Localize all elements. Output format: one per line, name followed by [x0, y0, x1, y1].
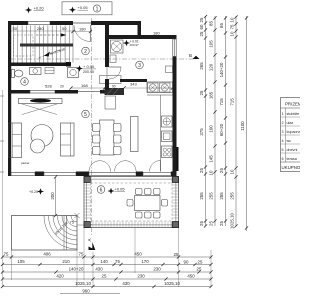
room tag 4: [21, 78, 29, 86]
svg-text:25: 25: [199, 17, 204, 22]
dim row 5: [1, 285, 213, 288]
svg-text:105: 105: [209, 40, 214, 48]
entry door swing: [74, 25, 91, 42]
step arcs: [44, 216, 77, 249]
svg-text:25: 25: [199, 90, 204, 95]
svg-text:wc: wc: [287, 139, 292, 143]
svg-text:85: 85: [219, 23, 224, 28]
burners: [148, 83, 171, 92]
svg-text:75: 75: [79, 252, 84, 257]
terrace chairs top: [136, 189, 161, 195]
stair interior dim line: [11, 26, 75, 31]
shaft stub below pier: [105, 96, 116, 109]
corridor level marker 0.00: [76, 64, 96, 74]
section line A-A vertical dashed: [91, 18, 93, 236]
dim 343: [106, 82, 175, 90]
svg-text:60: 60: [199, 24, 204, 29]
tv sideboard: [19, 99, 63, 104]
svg-text:1: 1: [282, 112, 284, 116]
sofa left: [9, 123, 22, 158]
svg-text:230: 230: [137, 274, 145, 279]
svg-text:960: 960: [82, 289, 90, 294]
dim 528: [45, 84, 64, 89]
svg-text:168: 168: [81, 83, 88, 88]
svg-text:200: 200: [50, 192, 55, 200]
svg-text:140+20: 140+20: [219, 62, 224, 77]
bathroom wc: [110, 55, 116, 63]
shower tray: [111, 40, 124, 53]
terrace table: [135, 196, 161, 211]
section marker B right: [189, 53, 200, 59]
svg-text:25: 25: [219, 221, 224, 226]
toilet: [12, 70, 23, 78]
svg-text:25: 25: [174, 252, 179, 257]
svg-text:25: 25: [197, 267, 202, 272]
chairs left: [93, 124, 101, 155]
south wall: [8, 172, 177, 177]
east wall: [173, 35, 179, 176]
terrace chair right: [162, 200, 168, 207]
dining table: [100, 120, 115, 155]
svg-text:25: 25: [198, 260, 203, 265]
canopy outline above entry: [62, 2, 112, 15]
svg-text:105: 105: [17, 259, 25, 264]
svg-text:200.95: 200.95: [83, 70, 94, 74]
svg-text:dnevni: dnevni: [287, 148, 298, 152]
svg-text:10: 10: [230, 169, 235, 174]
svg-text:140+20: 140+20: [69, 267, 84, 272]
niche above pier: [100, 76, 122, 84]
north wall: [8, 21, 141, 25]
pergola roof dashed: [91, 183, 173, 221]
svg-text:406: 406: [43, 252, 51, 257]
svg-text:10: 10: [230, 31, 235, 36]
cooktop counter: [147, 82, 173, 95]
pergola frame: [84, 177, 179, 228]
svg-text:A: A: [87, 238, 92, 241]
svg-text:528: 528: [45, 84, 52, 89]
kitchen island: [131, 117, 139, 152]
svg-text:430: 430: [95, 267, 103, 272]
stair treads: [14, 26, 74, 63]
level marker +0.20 garden: [29, 188, 44, 194]
svg-text:10: 10: [209, 170, 214, 175]
chain line 3: [224, 16, 227, 226]
svg-text:75: 75: [230, 24, 235, 29]
svg-text:1025,10: 1025,10: [75, 281, 91, 286]
terrace chair left: [127, 200, 133, 207]
svg-text:10: 10: [230, 17, 235, 22]
svg-text:230: 230: [153, 267, 161, 272]
kitchen side counter: [160, 95, 162, 172]
dim 200 vertical: [50, 175, 57, 217]
stair dashed landing rect: [14, 35, 34, 56]
svg-text:140: 140: [100, 259, 108, 264]
dim row 3: [1, 270, 213, 273]
hatched pier near corridor: [105, 88, 125, 95]
svg-text:240: 240: [37, 26, 44, 31]
floor label: [21, 161, 30, 165]
svg-text:180: 180: [153, 31, 160, 36]
dim 180 entry: [71, 27, 92, 34]
svg-text:255: 255: [199, 192, 204, 200]
svg-text:5: 5: [282, 148, 284, 152]
bathroom sill: [166, 66, 173, 73]
oven: [162, 131, 173, 142]
svg-text:20: 20: [106, 85, 110, 89]
bathroom door swing: [109, 67, 121, 79]
svg-text:PRIZEMLJE: PRIZEMLJE: [285, 102, 300, 107]
kitchen door swing: [150, 161, 161, 172]
svg-text:200.97: 200.97: [130, 43, 140, 47]
sofa right: [61, 123, 75, 156]
left edge ticks: [0, 96, 4, 172]
svg-text:60+20: 60+20: [219, 123, 224, 136]
bathroom south wall: [120, 79, 147, 82]
stair mid rail band: [20, 44, 73, 47]
svg-text:2: 2: [282, 121, 284, 125]
sink unit: [162, 116, 173, 127]
pergola beam hatch rungs: [84, 185, 179, 228]
steps slab: [12, 213, 80, 250]
chain line 1: [204, 15, 207, 228]
chairs right: [114, 124, 122, 155]
svg-text:450: 450: [134, 252, 142, 257]
dim row 6 overall: [60, 289, 120, 294]
svg-text:2: 2: [84, 49, 87, 55]
svg-text:stubište: stubište: [287, 112, 300, 116]
svg-text:3: 3: [282, 130, 284, 134]
svg-text:+0.20: +0.20: [34, 5, 45, 10]
svg-text:terasa: terasa: [287, 157, 298, 161]
svg-text:90: 90: [112, 85, 116, 89]
svg-text:180: 180: [79, 27, 86, 32]
dim row 1: [1, 255, 213, 258]
svg-text:25: 25: [199, 168, 204, 173]
svg-text:kupaona: kupaona: [287, 130, 301, 134]
bathroom north wall: [109, 21, 177, 39]
dim row 2: [1, 263, 213, 266]
svg-text:145: 145: [209, 155, 214, 163]
bathroom level marker: [123, 39, 139, 47]
svg-text:255: 255: [209, 192, 214, 200]
dim row 4: [1, 277, 213, 280]
svg-text:4: 4: [282, 139, 284, 143]
svg-text:25: 25: [102, 274, 107, 279]
svg-text:450: 450: [187, 274, 195, 279]
A arrow bottom: [89, 247, 96, 251]
section line B-B horizontal dashed: [8, 58, 196, 60]
stairs south wall: [8, 62, 71, 67]
pergola posts: [84, 177, 179, 228]
wc strip south wall: [8, 90, 105, 94]
coffee table large: [31, 125, 53, 147]
svg-text:25: 25: [199, 31, 204, 36]
svg-text:5: 5: [84, 112, 87, 118]
svg-text:1100: 1100: [240, 121, 245, 131]
level marker terrace: [108, 186, 126, 194]
west wall: [8, 21, 11, 176]
svg-text:4: 4: [23, 79, 26, 85]
svg-text:parket: parket: [21, 161, 30, 165]
appliance grid: [162, 146, 173, 158]
svg-text:1025,10: 1025,10: [230, 213, 235, 229]
svg-text:25: 25: [209, 221, 214, 226]
svg-text:343: 343: [130, 82, 137, 87]
chain line 5 overall: [245, 16, 248, 231]
svg-text:90: 90: [184, 260, 189, 265]
svg-text:255: 255: [230, 192, 235, 200]
svg-text:20: 20: [60, 85, 64, 89]
shelf: [45, 68, 54, 74]
room tag 6: [97, 186, 105, 194]
coffee table small: [31, 139, 45, 153]
slab inner edge lines: [64, 216, 66, 251]
room tag 5: [82, 110, 90, 118]
stair up arrow upper flight: [36, 33, 67, 36]
svg-text:430: 430: [122, 281, 130, 286]
svg-text:715: 715: [219, 98, 224, 106]
svg-text:+0.05: +0.05: [78, 5, 89, 10]
svg-text:265: 265: [199, 62, 204, 70]
svg-text:50: 50: [62, 26, 67, 31]
svg-text:255: 255: [219, 192, 224, 200]
svg-text:85: 85: [209, 21, 214, 26]
washbasin: [30, 68, 42, 75]
svg-text:170: 170: [141, 259, 149, 264]
svg-text:210: 210: [62, 259, 70, 264]
svg-text:1025,10: 1025,10: [164, 281, 180, 286]
svg-text:3: 3: [138, 63, 141, 69]
dim 168: [69, 83, 106, 90]
dim 180 top right: [153, 31, 160, 36]
svg-text:+0.20: +0.20: [29, 190, 38, 194]
chain line 2: [213, 16, 216, 226]
svg-text:1: 1: [96, 6, 99, 12]
terrace chairs bottom: [136, 212, 161, 218]
french doors living: [89, 161, 136, 172]
stair up arrow lower flight: [38, 47, 66, 58]
svg-text:75: 75: [115, 259, 120, 264]
washing machine: [68, 68, 79, 78]
section marker A bottom: [87, 238, 95, 250]
svg-text:6: 6: [100, 187, 103, 193]
svg-text:185: 185: [209, 91, 214, 99]
svg-text:120: 120: [209, 63, 214, 71]
room tag 3: [136, 61, 144, 69]
svg-text:375: 375: [199, 128, 204, 136]
step annotation: [54, 221, 69, 236]
level marker +0.20 top-left: [25, 5, 44, 13]
level marker +0.05 canopy: [69, 5, 88, 13]
extension lines: [3, 90, 212, 287]
entry/bath divider wall: [105, 21, 109, 90]
svg-text:B: B: [189, 53, 192, 58]
svg-text:160: 160: [209, 125, 214, 133]
svg-text:25: 25: [199, 221, 204, 226]
svg-text:50: 50: [13, 26, 18, 31]
svg-text:UKUPNO: UKUPNO: [282, 165, 301, 170]
svg-text:+0.05: +0.05: [115, 186, 126, 191]
svg-text:715: 715: [230, 98, 235, 106]
svg-text:ulaz: ulaz: [287, 121, 294, 125]
dim 75 slab-pergola: [70, 220, 85, 226]
room tag 2 entry: [82, 47, 90, 55]
svg-text:75: 75: [70, 220, 75, 225]
svg-text:+ 0.00: + 0.00: [83, 64, 95, 69]
svg-text:420: 420: [56, 274, 64, 279]
svg-text:6: 6: [282, 157, 284, 161]
tv view lines: [22, 104, 57, 115]
svg-text:25: 25: [219, 168, 224, 173]
chain line 4: [234, 15, 237, 227]
room tag 1: [93, 5, 100, 12]
svg-text:75: 75: [4, 252, 9, 257]
